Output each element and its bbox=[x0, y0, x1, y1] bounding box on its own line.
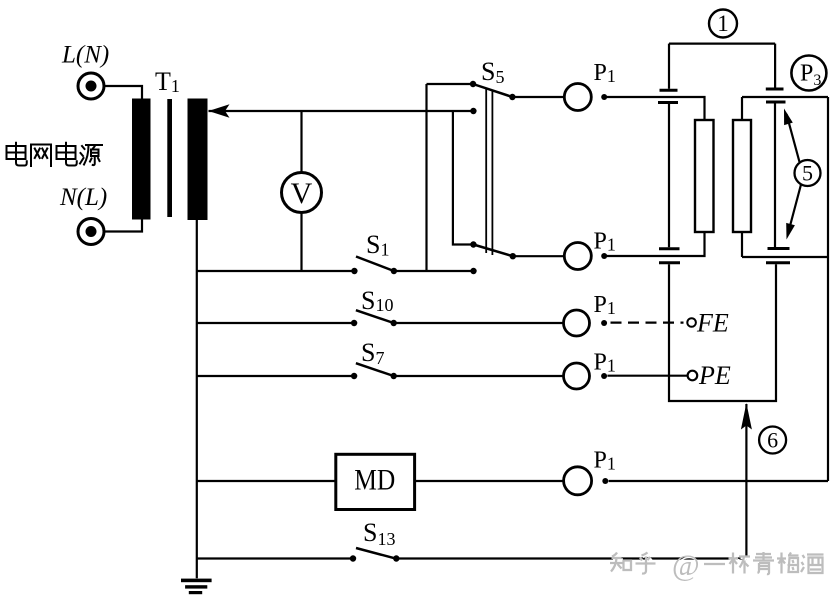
svg-text:1: 1 bbox=[717, 11, 729, 36]
svg-text:5: 5 bbox=[802, 161, 813, 186]
svg-text:FE: FE bbox=[696, 309, 729, 338]
svg-text:PE: PE bbox=[698, 361, 731, 390]
svg-text:6: 6 bbox=[767, 428, 778, 453]
svg-text:N(L): N(L) bbox=[59, 184, 107, 211]
svg-text:@: @ bbox=[672, 549, 700, 582]
svg-text:V: V bbox=[291, 177, 313, 210]
svg-text:MD: MD bbox=[354, 464, 395, 497]
svg-text:L(N): L(N) bbox=[61, 42, 109, 69]
